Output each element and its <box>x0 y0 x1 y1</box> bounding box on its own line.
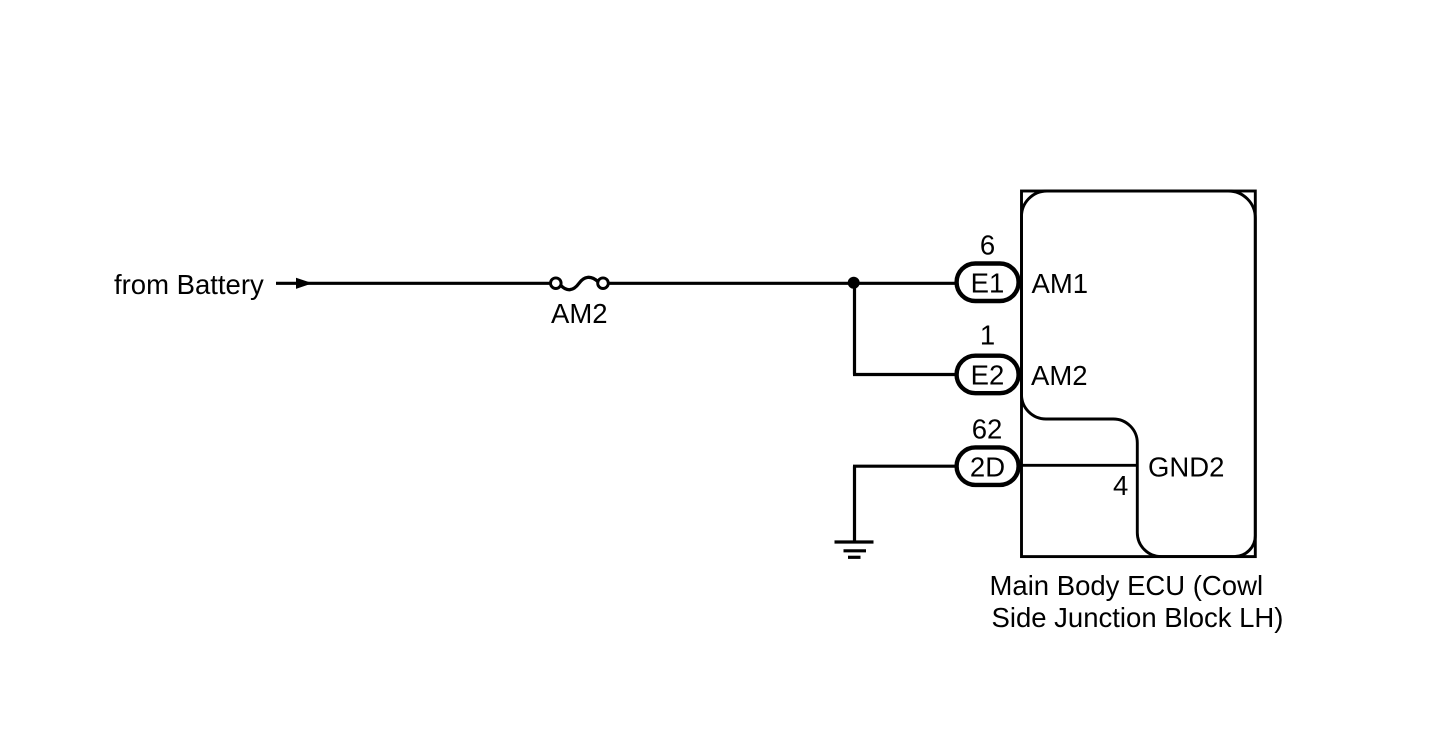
svg-text:1: 1 <box>980 320 995 351</box>
wire node A down <box>853 283 856 374</box>
svg-text:62: 62 <box>972 414 1003 445</box>
svg-text:Side Junction Block LH): Side Junction Block LH) <box>992 602 1284 633</box>
wire pin 2D to GND2 inside ECU <box>1020 464 1137 467</box>
svg-text:AM2: AM2 <box>1031 360 1088 391</box>
svg-text:AM1: AM1 <box>1032 268 1089 299</box>
ECU inner rounded outline <box>1021 191 1255 557</box>
svg-text:E1: E1 <box>971 268 1005 299</box>
connector pin E2 <box>957 356 1019 394</box>
svg-text:from Battery: from Battery <box>114 269 264 300</box>
arrowhead on battery feed wire <box>296 278 313 289</box>
connector pin 2D <box>957 447 1019 485</box>
svg-text:E2: E2 <box>971 360 1005 391</box>
wire from Battery to fuse AM2 <box>276 282 551 285</box>
svg-text:4: 4 <box>1113 470 1128 501</box>
svg-text:2D: 2D <box>970 451 1005 482</box>
fuse AM2 <box>551 277 609 289</box>
ECU outer box <box>1022 191 1256 557</box>
wire fuse to node A <box>609 282 855 285</box>
wire down to ground <box>853 466 856 541</box>
wire node A to pin E1 <box>854 282 956 285</box>
node A junction dot <box>848 277 860 289</box>
connector pin E1 <box>957 264 1019 302</box>
svg-text:GND2: GND2 <box>1148 451 1224 482</box>
wire ground to pin 2D <box>853 465 956 468</box>
ground <box>835 542 874 557</box>
wire to pin E2 <box>853 373 956 376</box>
svg-text:AM2: AM2 <box>551 298 608 329</box>
svg-text:6: 6 <box>980 230 995 261</box>
svg-text:Main Body ECU (Cowl: Main Body ECU (Cowl <box>990 570 1264 601</box>
